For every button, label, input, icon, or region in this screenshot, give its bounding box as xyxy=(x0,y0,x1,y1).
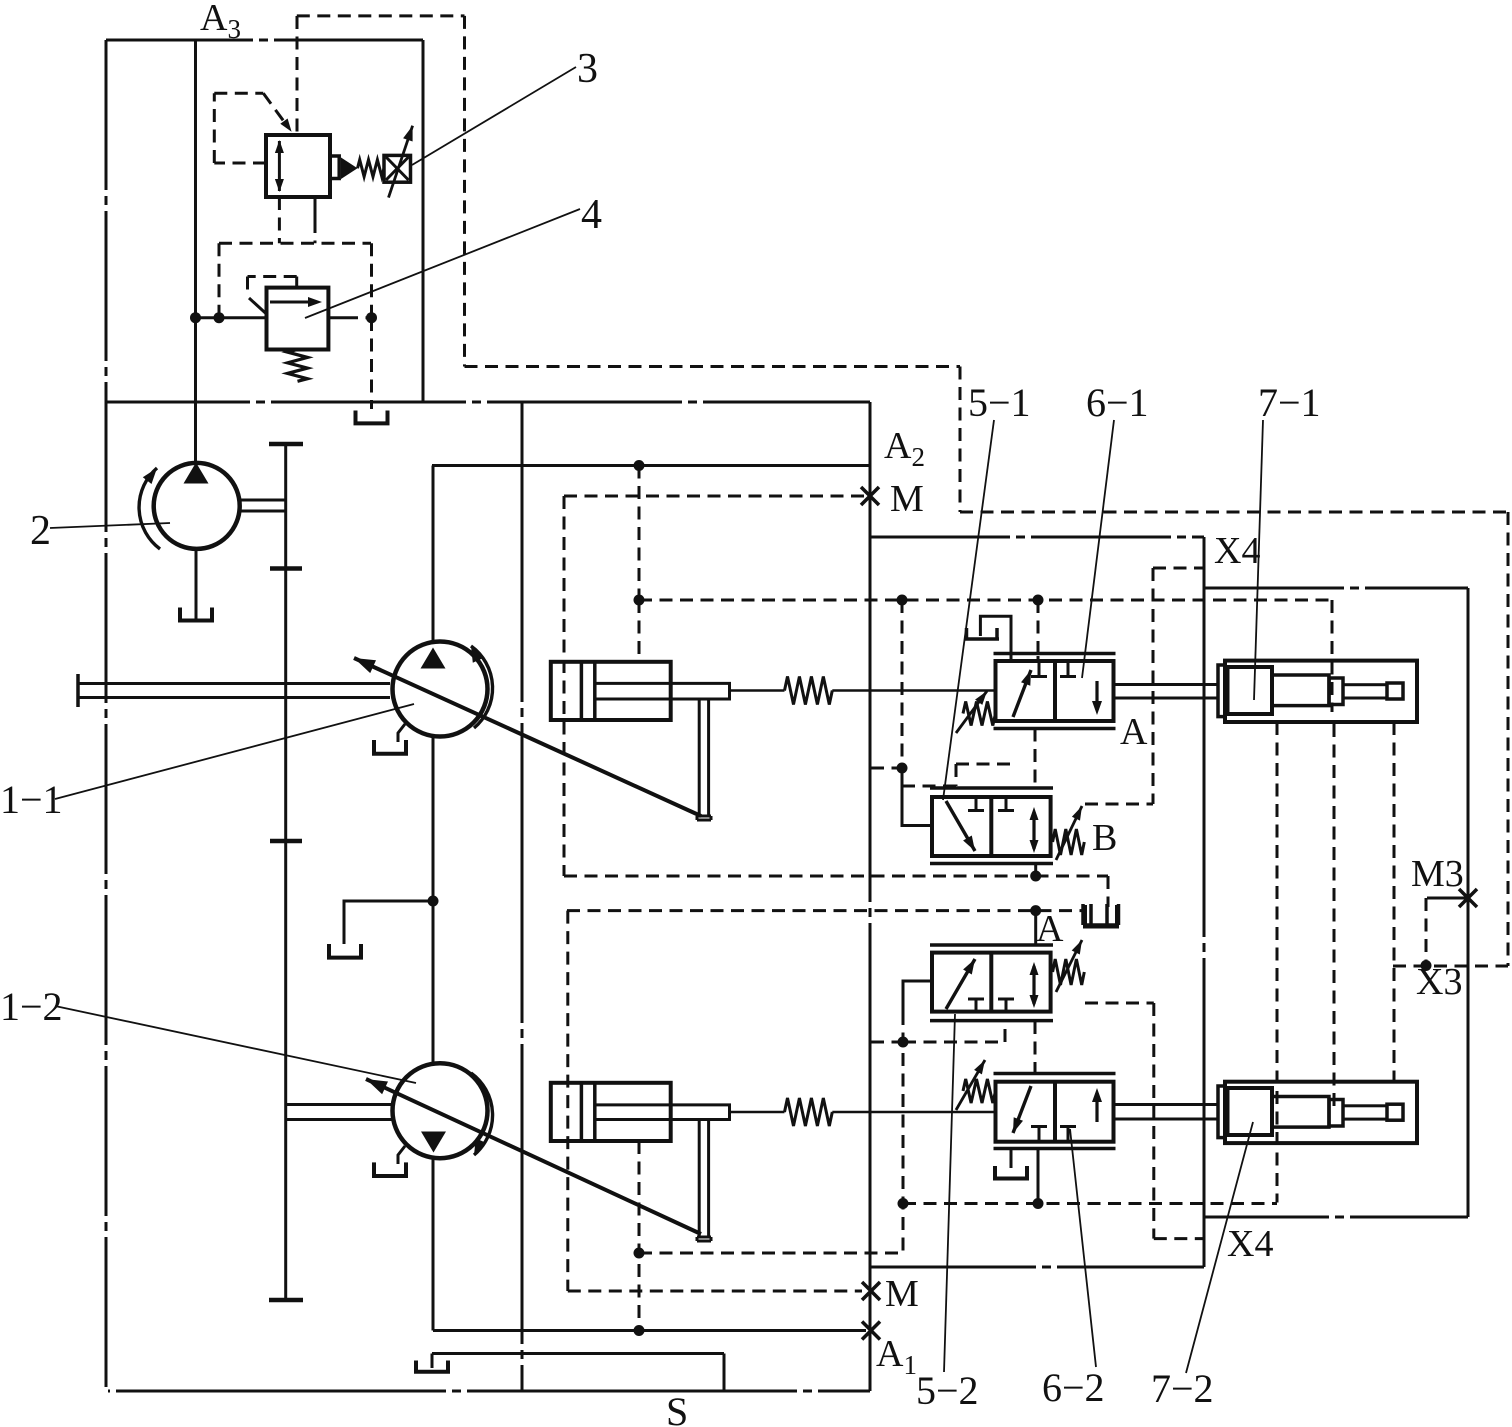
junction dot pilot y=1042 xyxy=(898,1037,909,1048)
enclosure main right spine x=870 xyxy=(869,402,872,1391)
pump 2 flow triangle xyxy=(184,463,209,484)
pilot line dashed right edge x=1508 xyxy=(1507,512,1510,966)
svg-text:2: 2 xyxy=(30,508,51,554)
junction dot y=1203 x=1038 xyxy=(1033,1198,1044,1209)
X marker port M top xyxy=(861,487,879,505)
wire M3 jog xyxy=(1427,897,1468,900)
servo cylinder 2 body xyxy=(551,1083,671,1141)
valve 5-1 spring adjust arrow xyxy=(1056,806,1082,860)
valve 5-2 body xyxy=(932,953,1051,1012)
valve 6-1 bottom pilot dashed xyxy=(1034,729,1037,789)
shaft coupling bar y=841 xyxy=(270,839,302,844)
junction dot y=876 valve 5-1 drain xyxy=(1030,871,1041,882)
leader line 6-1 xyxy=(1082,420,1114,678)
pilot line dashed y=366.5 xyxy=(465,365,961,368)
pilot dashed x=639 lower xyxy=(638,1141,641,1331)
pilot box around valve 4 left edge xyxy=(218,243,221,317)
mechanical rod 6-1 to 7-1 xyxy=(1114,683,1219,686)
wire valve 4 right port xyxy=(328,316,345,319)
wire pump1-1 suction to pump1-2 x=433 xyxy=(432,736,435,1063)
svg-text:M: M xyxy=(890,478,924,520)
valve 5-2 lower parallel line xyxy=(930,1019,1053,1023)
wire S-box step vertical x=724 xyxy=(723,1354,726,1392)
wire feed S-box tank xyxy=(431,1354,434,1369)
leader line 5-2 xyxy=(944,1014,955,1372)
valve 6-2 body xyxy=(996,1082,1114,1142)
relief valve 4 internal arrow xyxy=(270,301,315,304)
cylinder 7-2 mid block xyxy=(1272,1097,1329,1128)
junction dot pilot y=600 x=902 xyxy=(897,595,908,606)
pilot line dashed x=1394 xyxy=(1393,722,1396,1082)
valve 5-2 upper parallel line xyxy=(930,943,1053,947)
valve 5-2 left throttle arrow xyxy=(946,959,975,1009)
tank under S-box step xyxy=(414,1361,418,1372)
cylinder 7-2 rod xyxy=(1343,1106,1387,1119)
pilot drain valve 4 right x=371.5 xyxy=(370,243,373,318)
pilot drain corner x=1108 xyxy=(1107,876,1110,907)
valve 6-2 blocked port T left xyxy=(1038,1128,1041,1142)
leader line 7-1 xyxy=(1254,420,1263,700)
enclosure X4 box top edge y=537 xyxy=(870,536,1204,539)
relief valve 3 spring xyxy=(358,160,385,177)
valve 6-1 lower parallel line xyxy=(994,727,1116,731)
cylinder 7-1 small plate xyxy=(1329,678,1343,705)
wire pump2 outlet x=195 (box top to pump) xyxy=(194,40,197,463)
valve 5-2 spring xyxy=(1053,959,1085,985)
relief valve 4 spring xyxy=(288,350,308,382)
pump 1-2 rotation arrow xyxy=(471,1073,493,1155)
pilot line dashed x=639 down xyxy=(638,466,641,601)
valve 5-1 bottom port xyxy=(1034,864,1037,877)
wire valve 4 left port xyxy=(196,316,267,319)
junction dot valve4 left 2 xyxy=(214,312,225,323)
enclosure inner box left edge x=522 xyxy=(521,402,524,1391)
servo cylinder 1 lever xyxy=(698,699,701,816)
pilot dashed y=1203.5 xyxy=(903,1202,1277,1205)
feedback spring 1 xyxy=(730,689,785,692)
pump 1-1 circle xyxy=(393,642,488,737)
valve 6-2 bottom port xyxy=(1037,1149,1040,1204)
pilot dashed y=1238.6 xyxy=(1154,1237,1204,1240)
cylinder 7-1 mid block xyxy=(1272,675,1329,706)
pump 1-1 drain line xyxy=(398,724,405,742)
junction dot pilot y=600 x=1038 xyxy=(1033,595,1044,606)
svg-text:6−2: 6−2 xyxy=(1042,1365,1105,1410)
X marker port A1 xyxy=(862,1322,880,1340)
pilot line dashed x=464.5 xyxy=(463,16,466,367)
tank under pump column branch xyxy=(327,944,331,958)
valve 5-1 spring B xyxy=(1053,829,1085,855)
svg-text:6−1: 6−1 xyxy=(1086,380,1149,425)
junction dot A2 line xyxy=(634,460,645,471)
junction dot A1 line xyxy=(634,1325,645,1336)
tank pump 2 drain xyxy=(178,608,182,621)
pilot line valve 3 bottom ports xyxy=(278,197,281,243)
valve 5-1 body xyxy=(932,797,1051,856)
valve 5-1 right double arrow xyxy=(1032,812,1035,849)
pilot dashed fragment left of valve 5-1 xyxy=(955,764,958,786)
svg-text:B: B xyxy=(1092,817,1117,859)
enclosure main box bottom edge y=1391 xyxy=(108,1390,870,1393)
svg-text:A: A xyxy=(1036,908,1064,950)
pilot line dashed x=902 to valve 5-1 xyxy=(901,600,904,768)
cylinder 7-2 rod end xyxy=(1387,1104,1403,1120)
relief valve 3 seat block xyxy=(330,156,339,179)
svg-text:S: S xyxy=(666,1389,688,1427)
pilot dashed box left x=564 xyxy=(563,496,566,876)
svg-text:7−2: 7−2 xyxy=(1151,1366,1214,1411)
svg-text:A1: A1 xyxy=(876,1333,917,1380)
pump 2 circle xyxy=(154,463,240,549)
valve 5-1 blocked port T right xyxy=(1005,797,1008,809)
svg-text:3: 3 xyxy=(577,46,598,92)
pilot line dashed x=1334 through cylinder 7-1 xyxy=(1331,600,1334,712)
relief valve 3 adjust arrow xyxy=(389,126,413,198)
valve 6-1 right down arrow xyxy=(1095,681,1098,710)
valve 6-2 upper parallel line xyxy=(994,1072,1116,1076)
pump 1-1 rotation arrow xyxy=(471,646,493,728)
feedback spring 2 xyxy=(730,1111,785,1114)
pilot dashed y=1042 right xyxy=(903,1041,1005,1044)
pump 1-1 variable stroke arrow xyxy=(354,658,701,816)
leader line 7-2 xyxy=(1186,1122,1253,1373)
svg-text:A2: A2 xyxy=(884,425,925,472)
cylinder 7-1 rod end xyxy=(1387,683,1403,699)
pilot dashed y=1291 xyxy=(568,1290,862,1293)
leader line 1-1 xyxy=(55,704,414,799)
pump 2 drain line xyxy=(195,549,198,620)
tank top group drain xyxy=(1083,905,1087,927)
pilot elbow into valve 5-1 xyxy=(902,768,932,826)
pilot dashed x=903 xyxy=(902,1012,905,1253)
relief valve 4 pilot tick xyxy=(249,298,267,314)
pump 1-1 flow triangle xyxy=(421,648,446,669)
pilot box around valve 4 top edge xyxy=(219,242,371,245)
shaft input double line to pump 1-1 xyxy=(78,682,390,685)
junction dot valve4 left 1 xyxy=(190,312,201,323)
svg-text:A: A xyxy=(1120,711,1148,753)
enclosure M3 box right edge x=1468 xyxy=(1467,588,1470,1217)
valve 6-1 spring adjust arrow xyxy=(956,691,987,733)
wire S-box step y=1353.5 xyxy=(432,1352,724,1355)
servo cylinder 1 body xyxy=(551,662,671,720)
control rod line 2 to valve 6-2 xyxy=(832,1111,995,1114)
junction dot X3 xyxy=(1421,960,1432,971)
valve 6-2 spring adjust arrow xyxy=(956,1060,985,1110)
pilot line A3 dashed top edge xyxy=(297,14,465,17)
wire A1 line y=1330.5 xyxy=(433,1329,866,1332)
svg-text:5−2: 5−2 xyxy=(916,1368,979,1413)
valve 6-1 spring xyxy=(963,702,996,726)
svg-text:M3: M3 xyxy=(1411,853,1464,895)
pilot line dashed y=600 main xyxy=(639,599,1332,602)
valve 6-1 drain spiral xyxy=(980,616,1011,661)
relief valve 3 adjust orifice box xyxy=(384,155,411,182)
valve 5-2 right double arrow xyxy=(1032,966,1035,1004)
pilot line dashed x=1277 xyxy=(1276,722,1279,1203)
svg-text:M: M xyxy=(885,1273,919,1315)
pilot line dashed y=496 gauge M xyxy=(564,495,866,498)
servo cylinder 1 piston xyxy=(580,662,584,720)
pump 1-2 circle xyxy=(393,1063,488,1158)
pilot elbow into valve 5-2 xyxy=(903,981,932,1012)
svg-text:1−2: 1−2 xyxy=(0,984,63,1029)
cylinder 7-2 flange xyxy=(1218,1086,1225,1138)
svg-text:5−1: 5−1 xyxy=(968,380,1031,425)
pump 1-2 drain line xyxy=(398,1146,405,1164)
shaft vertical line x=285.7 xyxy=(284,444,287,1300)
valve 6-2 drain line xyxy=(1010,1149,1013,1169)
junction dot y=1203 x=903 xyxy=(898,1198,909,1209)
leader line 3 xyxy=(412,67,576,165)
pilot line dashed x=960 xyxy=(959,367,962,513)
enclosure main box top edge y=402 xyxy=(106,401,870,404)
valve 6-1 blocked port T left xyxy=(1038,661,1041,675)
svg-text:X4: X4 xyxy=(1214,530,1260,572)
pilot line dashed x=1038 to valve 6-1 xyxy=(1037,600,1040,656)
enclosure X4 box right edge x=1204 xyxy=(1203,537,1206,1267)
pilot dashed fragment y=786 xyxy=(902,785,956,788)
junction dot pilot y=600 x=639 xyxy=(634,595,645,606)
enclosure top-left box right edge xyxy=(422,40,425,402)
valve 5-2 blocked port T left xyxy=(975,1000,978,1012)
tank under main box edge xyxy=(354,411,358,424)
control rod line 1 to valve 6-1 xyxy=(832,689,995,692)
servo cylinder 2 piston xyxy=(580,1083,584,1141)
wire branch to tank at pump column xyxy=(344,901,433,944)
pilot line dashed y=768 stub xyxy=(871,767,902,770)
pilot dashed y=876 xyxy=(564,875,1108,878)
pilot line valve 3 top from A3 box xyxy=(296,16,299,133)
enclosure top-left box A3 top edge xyxy=(106,39,423,42)
leader line 1-2 xyxy=(55,1006,416,1083)
tank valve 6-1 drain xyxy=(965,628,969,639)
valve 5-2 spring adjust arrow xyxy=(1056,940,1082,992)
valve 6-1 blocked port T right xyxy=(1067,661,1070,675)
servo cylinder 1 rod xyxy=(595,683,730,699)
X marker port M3 xyxy=(1459,889,1477,907)
cylinder 7-1 rod xyxy=(1343,685,1387,698)
shaft coupling bar y=568.5 xyxy=(270,566,302,571)
leader line 2 xyxy=(50,523,170,528)
svg-text:X3: X3 xyxy=(1416,961,1462,1003)
svg-text:4: 4 xyxy=(581,192,602,238)
valve 5-2 divider xyxy=(989,953,993,1012)
enclosure M3 box top edge y=588 xyxy=(1204,587,1468,590)
tank pump 1-2 drain xyxy=(372,1162,376,1176)
pilot dashed y=1042 stub left xyxy=(871,1041,903,1044)
valve 5-1 upper parallel line xyxy=(930,786,1053,790)
svg-text:7−1: 7−1 xyxy=(1258,380,1321,425)
shaft branch to pump 2 xyxy=(239,499,286,502)
cylinder 7-1 outer body xyxy=(1225,661,1417,722)
valve 5-1 lower parallel line xyxy=(930,862,1053,866)
junction dot valve4 right xyxy=(366,312,377,323)
relief valve 3 internal arrow xyxy=(278,141,281,191)
pilot dashed y=910.6 xyxy=(567,909,1085,912)
tank valve 6-2 drain xyxy=(993,1166,997,1179)
cylinder 7-2 piston block xyxy=(1228,1088,1273,1135)
X marker port M bottom xyxy=(862,1282,880,1300)
valve 6-2 blocked port T right xyxy=(1067,1128,1070,1142)
valve 6-2 left throttle arrow xyxy=(1013,1086,1031,1133)
pilot line valve 3 diagonal xyxy=(263,93,288,127)
valve 6-2 spring xyxy=(963,1079,996,1103)
pilot dashed x=1153.8 lower xyxy=(1152,1003,1155,1239)
svg-text:A3: A3 xyxy=(200,0,241,44)
cylinder 7-2 small plate xyxy=(1329,1100,1343,1127)
pilot line dashed y=512 xyxy=(960,511,1508,514)
relief valve 4 pilot Z line xyxy=(295,277,298,288)
pilot X4 inner dashed top xyxy=(1153,567,1204,570)
junction dot valve 5-1 pilot xyxy=(897,763,908,774)
shaft end bar top xyxy=(269,442,303,447)
valve 6-1 left throttle arrow xyxy=(1013,670,1031,717)
pilot line valve 3 left loop xyxy=(214,162,266,165)
valve 5-1 divider xyxy=(989,797,993,856)
tank pump 1-1 drain xyxy=(372,740,376,754)
pilot X4 inner dashed y=804 to spring B xyxy=(1085,803,1153,806)
leader line 6-2 xyxy=(1070,1129,1096,1367)
pump 1-2 flow triangle xyxy=(421,1132,446,1153)
pilot dashed x=1035 5-2 to 6-2 xyxy=(1034,1021,1037,1073)
junction dot pump column tank branch xyxy=(428,896,439,907)
pump 2 rotation arrow xyxy=(139,468,160,549)
valve 5-2 blocked port T right xyxy=(1005,1000,1008,1012)
shaft branch to pump 1-2 xyxy=(286,1103,392,1106)
relief valve 3 pilot cone xyxy=(341,158,358,180)
pump 1-2 variable stroke arrow xyxy=(366,1079,701,1234)
pilot dashed y=1253 xyxy=(639,1252,903,1255)
junction dot y=1253 x=639 xyxy=(634,1248,645,1259)
valve 6-1 body xyxy=(996,661,1114,721)
valve 5-1 left throttle arrow xyxy=(946,801,975,851)
pilot line dashed y=966 X3 xyxy=(1393,965,1508,968)
junction dot valve 5-2 top port xyxy=(1030,905,1041,916)
enclosure X4 box bottom edge y=1267 xyxy=(871,1266,1204,1269)
leader line 5-1 xyxy=(943,420,994,800)
shaft end bar bottom xyxy=(269,1298,303,1303)
relief valve 3 body xyxy=(266,135,330,197)
wire pump2 riser continues xyxy=(194,318,197,463)
relief valve 4 body xyxy=(267,288,329,350)
valve 6-2 divider xyxy=(1053,1082,1057,1142)
svg-text:1−1: 1−1 xyxy=(0,777,63,822)
valve 6-2 lower parallel line xyxy=(994,1147,1116,1151)
cylinder 7-1 piston block xyxy=(1228,667,1273,714)
pilot dashed box left x=567.8 xyxy=(566,911,569,1291)
cylinder 7-2 outer body xyxy=(1225,1082,1417,1143)
tank bottom group drain xyxy=(1089,904,1093,925)
svg-text:X4: X4 xyxy=(1227,1223,1273,1265)
valve 6-1 divider xyxy=(1053,661,1057,721)
mechanical rod 6-2 to 7-2 xyxy=(1114,1103,1219,1106)
pilot dashed y=1003 spring side xyxy=(1085,1002,1154,1005)
enclosure left edge x=106 xyxy=(105,40,108,1391)
servo cylinder 2 lever xyxy=(698,1120,701,1238)
pilot dashed fragment above valve 5-1 top xyxy=(956,763,1012,766)
shaft input end cap xyxy=(76,674,80,707)
pilot dashed x=1426 M3 to X3 xyxy=(1425,898,1428,966)
leader line 4 xyxy=(305,209,580,318)
valve 6-1 upper parallel line xyxy=(994,652,1116,656)
servo cylinder 2 rod xyxy=(595,1105,730,1120)
valve 6-2 right up arrow xyxy=(1095,1093,1098,1122)
cylinder 7-1 flange xyxy=(1218,665,1225,717)
valve 5-1 blocked port T left xyxy=(975,797,978,809)
valve 5-2 top port xyxy=(1034,911,1037,945)
pilot X4 inner dashed left x=1153 xyxy=(1152,568,1155,804)
wire pump1-2 bottom to A1 corner xyxy=(432,1158,435,1331)
enclosure M3 box bottom edge y=1217 xyxy=(1204,1216,1468,1219)
wire A2 supply line y=465.5 xyxy=(432,464,870,467)
wire pump1-1 outlet riser x=433 xyxy=(432,466,435,643)
